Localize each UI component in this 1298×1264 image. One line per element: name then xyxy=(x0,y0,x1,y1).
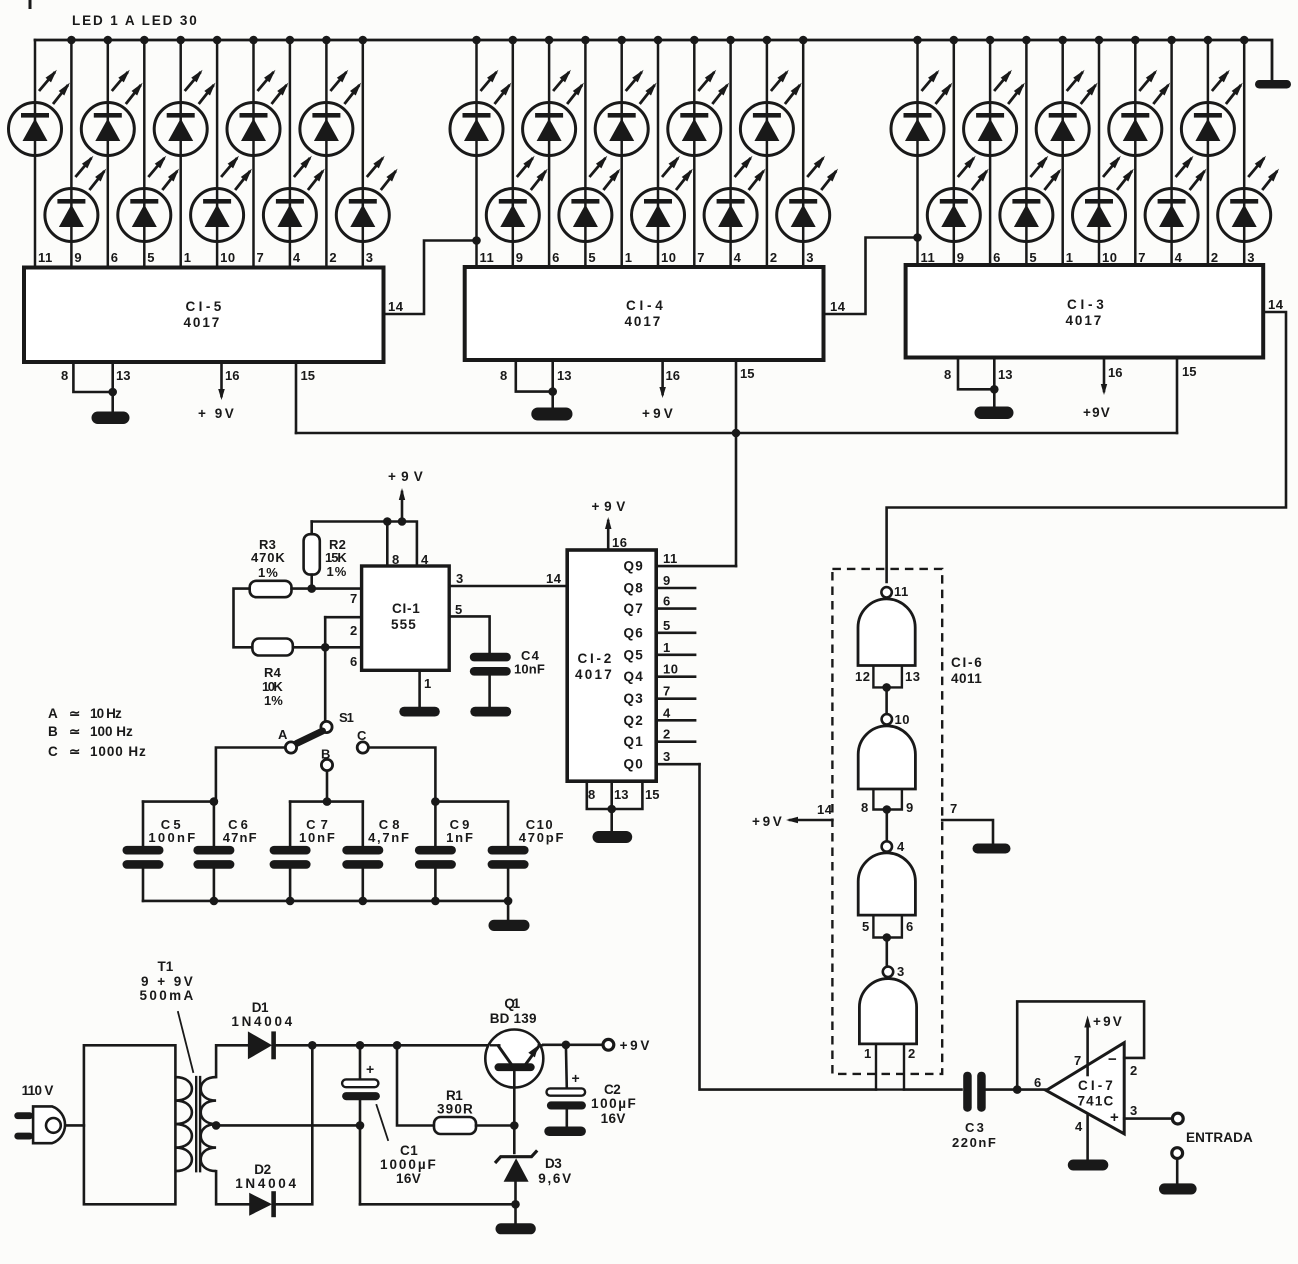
svg-text:C: C xyxy=(48,744,59,759)
LED10 xyxy=(336,156,397,242)
terminal ENTRADA xyxy=(1172,1113,1183,1124)
svg-text:555: 555 xyxy=(391,617,417,632)
terminal +9V output xyxy=(603,1039,614,1050)
switch S1 common xyxy=(321,721,332,732)
capacitor C8 4,7nF xyxy=(342,846,383,855)
wire rail to R1 xyxy=(397,1045,434,1125)
junction bus xyxy=(581,36,590,45)
wire LED column xyxy=(34,40,37,268)
junction bus xyxy=(799,36,808,45)
wire cap ground bus xyxy=(143,900,508,903)
svg-text:1: 1 xyxy=(663,640,671,655)
plug prong xyxy=(14,1133,33,1140)
junction bus xyxy=(322,36,331,45)
svg-text:100µF: 100µF xyxy=(591,1096,637,1111)
supply terminal bar xyxy=(1255,80,1291,89)
IC CI-5 4017 xyxy=(24,268,384,363)
wire pair3 rail xyxy=(435,800,508,803)
wire pin8 xyxy=(386,522,389,567)
junction xyxy=(323,797,332,806)
svg-text:16V: 16V xyxy=(601,1111,627,1126)
svg-text:≃: ≃ xyxy=(69,724,81,739)
pointer line T1 xyxy=(178,1012,193,1072)
transformer core xyxy=(199,1077,201,1171)
LED18 xyxy=(704,156,765,242)
wire pin16 xyxy=(661,360,664,394)
svg-text:1%: 1% xyxy=(327,564,348,579)
wire LED column xyxy=(325,40,328,268)
svg-text:10nF: 10nF xyxy=(299,830,336,845)
junction bus xyxy=(654,36,663,45)
svg-text:2: 2 xyxy=(663,727,671,742)
svg-text:5: 5 xyxy=(147,250,155,265)
svg-text:+9V: +9V xyxy=(388,469,424,484)
svg-text:10: 10 xyxy=(220,250,235,265)
wire pair1 rail xyxy=(143,800,214,803)
wire LED column xyxy=(1170,40,1173,265)
svg-text:10K: 10K xyxy=(262,679,284,694)
wire C6 top lead xyxy=(213,802,216,847)
svg-text:15: 15 xyxy=(645,787,659,802)
svg-text:3: 3 xyxy=(806,250,814,265)
svg-text:11: 11 xyxy=(921,250,936,265)
wire pin3 output xyxy=(1124,1117,1172,1120)
zener D3 9,6V xyxy=(495,1150,537,1163)
NAND gate 1 (pins 11,12,13) xyxy=(858,587,915,687)
capacitor C5 100nF xyxy=(123,846,164,855)
ground CI-7 pin4 xyxy=(1068,1160,1109,1171)
svg-text:CI-6: CI-6 xyxy=(951,655,983,670)
IC CI-4 4017 xyxy=(465,267,824,360)
wire D3 to ground rail xyxy=(514,1182,517,1205)
capacitor C6 47nF xyxy=(193,846,234,855)
wire C8 bottom lead xyxy=(361,869,364,901)
svg-text:500mA: 500mA xyxy=(140,988,195,1003)
junction xyxy=(548,387,557,396)
svg-text:9: 9 xyxy=(74,250,82,265)
junction xyxy=(431,797,440,806)
svg-text:2: 2 xyxy=(350,623,357,638)
svg-text:9: 9 xyxy=(663,573,671,588)
svg-text:4: 4 xyxy=(293,250,301,265)
svg-text:4: 4 xyxy=(663,705,671,720)
junction xyxy=(504,897,513,906)
svg-text:11: 11 xyxy=(38,250,53,265)
junction bus xyxy=(913,36,922,45)
LED29 xyxy=(1181,70,1242,156)
svg-text:15K: 15K xyxy=(325,550,348,565)
svg-text:10: 10 xyxy=(1102,250,1117,265)
wire LED column xyxy=(1243,40,1246,265)
wire pin16 xyxy=(607,521,610,550)
svg-text:3: 3 xyxy=(456,571,463,586)
svg-text:1: 1 xyxy=(184,250,192,265)
wire LED column xyxy=(179,40,182,268)
wire LED column xyxy=(802,40,805,267)
svg-text:16: 16 xyxy=(666,368,680,383)
wire LED column xyxy=(548,40,551,267)
svg-text:Q8: Q8 xyxy=(624,581,645,596)
junction bus xyxy=(726,36,735,45)
LED6 xyxy=(191,156,252,242)
svg-text:15: 15 xyxy=(740,366,754,381)
capacitor C4 10nF xyxy=(470,653,511,662)
IC CI-2 4017 xyxy=(567,550,656,781)
svg-text:Q7: Q7 xyxy=(624,601,645,616)
arrowhead xyxy=(218,389,225,400)
wire secondary top to D1 xyxy=(216,1045,248,1077)
svg-text:8: 8 xyxy=(861,800,869,815)
svg-text:BD 139: BD 139 xyxy=(490,1011,538,1026)
capacitor C3 220nF xyxy=(963,1072,972,1112)
svg-text:16: 16 xyxy=(612,535,627,550)
junction xyxy=(393,1041,402,1050)
LED16 xyxy=(632,156,693,242)
svg-text:470K: 470K xyxy=(251,550,286,565)
LED9 xyxy=(300,70,361,156)
svg-text:5: 5 xyxy=(1029,250,1037,265)
IC CI-6 4011 dashed outline xyxy=(832,569,942,1074)
svg-text:4: 4 xyxy=(897,839,905,854)
svg-text:3: 3 xyxy=(897,964,905,979)
LED25 xyxy=(1036,70,1097,156)
junction xyxy=(210,797,219,806)
LED2 xyxy=(45,156,106,242)
svg-text:15: 15 xyxy=(301,368,315,383)
svg-text:9,6V: 9,6V xyxy=(538,1171,572,1186)
junction center tap xyxy=(212,1121,221,1130)
svg-text:6: 6 xyxy=(663,594,671,609)
ground CI-3 xyxy=(975,407,1014,420)
svg-text:100nF: 100nF xyxy=(148,830,196,845)
wire D2 to rail xyxy=(276,1045,312,1204)
svg-text:+ 9V: + 9V xyxy=(198,406,235,421)
LED7 xyxy=(227,70,288,156)
svg-text:1: 1 xyxy=(1066,250,1074,265)
LED1 xyxy=(9,70,70,156)
arrow +9V pin14 xyxy=(786,817,798,823)
ground CI-5 xyxy=(92,412,130,425)
svg-text:7: 7 xyxy=(663,684,671,699)
junction xyxy=(562,1041,571,1050)
wire LED column xyxy=(584,40,587,267)
svg-text:+9V: +9V xyxy=(752,814,783,829)
LED13 xyxy=(523,70,584,156)
wire LED column xyxy=(1207,40,1210,265)
wire pin8 xyxy=(958,358,994,390)
svg-text:10: 10 xyxy=(663,662,678,677)
wire C9 top lead xyxy=(434,802,437,847)
ground pin1 xyxy=(399,707,440,717)
LED20 xyxy=(777,156,838,242)
capacitor C7 10nF xyxy=(270,846,311,855)
svg-text:10 Hz: 10 Hz xyxy=(90,706,123,721)
NAND gate 2 (pins 10,8,9) xyxy=(858,714,915,809)
junction bus xyxy=(1204,36,1213,45)
svg-text:9 + 9V: 9 + 9V xyxy=(141,974,194,989)
svg-text:LED 1 A LED 30: LED 1 A LED 30 xyxy=(72,13,199,28)
resistor R1 390R xyxy=(434,1117,476,1134)
svg-text:6: 6 xyxy=(993,250,1001,265)
svg-text:D1: D1 xyxy=(252,1000,270,1015)
junction xyxy=(286,897,295,906)
junction xyxy=(882,683,891,692)
svg-text:7: 7 xyxy=(350,591,357,606)
wire C9 bottom lead xyxy=(434,869,437,901)
capacitor C10 470pF xyxy=(488,846,529,855)
wire Q3 stub xyxy=(656,697,695,700)
svg-text:3: 3 xyxy=(663,749,671,764)
junction bus xyxy=(286,36,295,45)
svg-text:7: 7 xyxy=(1138,250,1146,265)
junction bus xyxy=(1095,36,1104,45)
junction xyxy=(511,1200,520,1209)
wire pin16 xyxy=(1103,358,1106,392)
wire pin1 xyxy=(418,670,421,707)
junction bus xyxy=(617,36,626,45)
wire LED column xyxy=(766,40,769,267)
svg-text:≃: ≃ xyxy=(69,744,81,759)
wire pin5 xyxy=(449,616,489,653)
svg-text:2: 2 xyxy=(1130,1063,1137,1078)
wire contact C to C9/C10 xyxy=(369,748,435,802)
wire R3-R4 left link xyxy=(234,589,253,648)
ground timing caps xyxy=(489,920,530,931)
svg-text:9: 9 xyxy=(516,250,524,265)
switch contact B xyxy=(321,759,332,770)
svg-text:14: 14 xyxy=(388,299,404,314)
svg-text:7: 7 xyxy=(697,250,705,265)
wire pin14 xyxy=(790,819,832,822)
wire plug to primary xyxy=(67,1124,84,1127)
svg-text:10nF: 10nF xyxy=(514,662,546,677)
svg-text:4017: 4017 xyxy=(1066,313,1103,328)
wire C5 bottom lead xyxy=(142,869,145,901)
wire to ground xyxy=(514,1204,517,1224)
svg-text:5: 5 xyxy=(455,602,462,617)
wire pin2 xyxy=(325,616,361,619)
svg-text:T1: T1 xyxy=(158,959,175,974)
svg-text:13: 13 xyxy=(116,368,130,383)
transformer T1 primary winding xyxy=(175,1077,192,1171)
wire Q6 stub xyxy=(656,631,695,634)
wire CI-4 pin14 to CI-3 xyxy=(824,238,918,315)
diode D1 1N4004 xyxy=(248,1031,272,1059)
svg-text:741C: 741C xyxy=(1078,1094,1115,1109)
wire pin6 xyxy=(293,646,362,649)
LED8 xyxy=(263,156,324,242)
svg-text:3: 3 xyxy=(366,250,374,265)
junction bus xyxy=(104,36,113,45)
ground CI-6 pin7 xyxy=(973,844,1011,854)
svg-text:+9V: +9V xyxy=(592,499,627,514)
svg-text:6: 6 xyxy=(350,654,357,669)
wire gate3 to gate4 xyxy=(885,938,888,967)
junction xyxy=(1013,1085,1022,1094)
svg-text:8: 8 xyxy=(500,368,507,383)
svg-text:R4: R4 xyxy=(264,665,282,680)
svg-text:1N4004: 1N4004 xyxy=(235,1176,297,1191)
junction bus xyxy=(1022,36,1031,45)
svg-text:4017: 4017 xyxy=(184,315,221,330)
wire emitter to +9V xyxy=(543,1044,602,1047)
wire +9V stem xyxy=(1086,1021,1089,1075)
svg-text:1nF: 1nF xyxy=(446,830,474,845)
svg-text:100 Hz: 100 Hz xyxy=(90,724,134,739)
wire +9V stem xyxy=(401,492,404,522)
junction xyxy=(913,233,922,242)
wire LED column xyxy=(252,40,255,268)
wire pin8 xyxy=(516,360,553,392)
junction xyxy=(321,643,330,652)
arrowhead xyxy=(1101,384,1107,395)
wire C1 top lead xyxy=(359,1045,362,1080)
svg-text:3: 3 xyxy=(1130,1103,1137,1118)
wire CI-3 pin14 to CI-6 gate1 xyxy=(887,312,1286,582)
junction xyxy=(210,897,219,906)
svg-text:7: 7 xyxy=(1074,1053,1081,1068)
junction xyxy=(359,897,368,906)
wire LED column xyxy=(107,40,110,268)
arrow +9V xyxy=(605,517,612,529)
svg-text:13: 13 xyxy=(557,368,571,383)
svg-text:6: 6 xyxy=(111,250,119,265)
junction xyxy=(307,584,316,593)
svg-text:16V: 16V xyxy=(396,1171,422,1186)
junction xyxy=(356,1121,365,1130)
wire gate1 to gate2 xyxy=(885,687,888,714)
arrow +9V xyxy=(399,488,405,500)
LED27 xyxy=(1109,70,1170,156)
svg-text:CI-1: CI-1 xyxy=(392,601,421,616)
svg-text:A: A xyxy=(48,706,59,721)
transistor Q1 BD139 xyxy=(485,1030,543,1088)
LED26 xyxy=(1073,156,1134,242)
wire LED column xyxy=(70,40,73,268)
wire LED column xyxy=(289,40,292,268)
wire LED column xyxy=(143,40,146,268)
svg-text:+: + xyxy=(572,1070,580,1086)
svg-text:+9V: +9V xyxy=(642,406,674,421)
junction xyxy=(308,1041,317,1050)
svg-text:−: − xyxy=(1108,1051,1117,1068)
wire LED column xyxy=(1134,40,1137,265)
wire Q0 to CI-6 pin1 xyxy=(700,764,877,1089)
svg-text:390R: 390R xyxy=(437,1102,474,1117)
svg-text:220nF: 220nF xyxy=(952,1135,997,1150)
junction bus xyxy=(1167,36,1176,45)
svg-text:4011: 4011 xyxy=(951,671,983,686)
LED15 xyxy=(595,70,656,156)
svg-text:D3: D3 xyxy=(545,1156,563,1171)
wire to ground xyxy=(507,901,510,920)
NAND gate 4 (pins 3,1,2) xyxy=(859,967,916,1090)
wire C1 bottom lead xyxy=(359,1100,362,1204)
svg-text:Q3: Q3 xyxy=(624,691,645,706)
svg-text:10: 10 xyxy=(895,712,910,727)
wire to C2 xyxy=(565,1045,568,1089)
IC CI-3 4017 xyxy=(906,265,1264,358)
junction xyxy=(383,517,392,526)
wire LED column xyxy=(1025,40,1028,265)
switch contact C xyxy=(357,742,368,753)
wire Q0 pin3 stub xyxy=(656,763,699,766)
switch contact A xyxy=(285,742,296,753)
svg-text:1: 1 xyxy=(424,676,431,691)
junction bus xyxy=(67,36,76,45)
wire pin13 xyxy=(993,358,996,408)
LED5 xyxy=(154,70,215,156)
junction bus xyxy=(1058,36,1067,45)
svg-text:S1: S1 xyxy=(339,710,355,725)
svg-text:+9V: +9V xyxy=(1093,1014,1123,1029)
wire CI-5 pin14 to CI-4 xyxy=(384,241,477,315)
LED21 xyxy=(891,70,952,156)
svg-text:1: 1 xyxy=(625,250,633,265)
wire feedback to pin2 xyxy=(1017,1001,1144,1089)
wire C3 to CI-7 xyxy=(986,1088,1046,1091)
wire contact A to C5/C6 xyxy=(216,748,285,802)
junction bus xyxy=(140,36,149,45)
wire LED column xyxy=(1061,40,1064,265)
ground CI-2 xyxy=(593,831,633,843)
LED30 xyxy=(1218,156,1279,242)
svg-text:≃: ≃ xyxy=(69,706,81,721)
svg-text:14: 14 xyxy=(1268,297,1284,312)
svg-text:4,7nF: 4,7nF xyxy=(368,830,410,845)
wire LED column xyxy=(475,40,478,267)
svg-text:9: 9 xyxy=(906,800,914,815)
LED4 xyxy=(118,156,179,242)
svg-text:C2: C2 xyxy=(604,1082,622,1097)
wire C7 top lead xyxy=(289,802,292,847)
capacitor C9 1nF xyxy=(415,846,456,855)
wire Q1 stub xyxy=(656,740,695,743)
svg-text:+9V: +9V xyxy=(620,1038,651,1053)
svg-text:110 V: 110 V xyxy=(22,1083,55,1098)
wire contact B to C7/C8 xyxy=(326,771,329,802)
wire LED column xyxy=(693,40,696,267)
wire to CI-2 pin11 xyxy=(735,433,738,566)
svg-text:6: 6 xyxy=(906,919,914,934)
wire pin13 xyxy=(551,360,554,408)
svg-text:2: 2 xyxy=(908,1046,916,1061)
svg-text:B: B xyxy=(321,747,330,762)
svg-text:Q1: Q1 xyxy=(504,996,521,1011)
junction bus xyxy=(545,36,554,45)
wire pin8 xyxy=(73,362,112,392)
svg-text:4: 4 xyxy=(734,250,742,265)
svg-text:1: 1 xyxy=(864,1046,872,1061)
svg-text:13: 13 xyxy=(614,787,628,802)
pointer line C1 xyxy=(377,1105,389,1140)
ground supply xyxy=(496,1223,536,1234)
ground C4 xyxy=(470,707,511,717)
wire LED column xyxy=(657,40,660,267)
junction xyxy=(431,897,440,906)
svg-text:7: 7 xyxy=(257,250,265,265)
svg-text:Q6: Q6 xyxy=(624,625,645,640)
wire LED column xyxy=(916,40,919,265)
ground terminal xyxy=(1159,1183,1197,1194)
svg-text:1%: 1% xyxy=(258,565,279,580)
wire LED column xyxy=(989,40,992,265)
junction xyxy=(883,933,892,942)
wire Q2 stub xyxy=(656,719,695,722)
junction bus xyxy=(950,36,959,45)
transformer T1 primary loop xyxy=(84,1045,175,1204)
wire Q7 stub xyxy=(656,607,695,610)
